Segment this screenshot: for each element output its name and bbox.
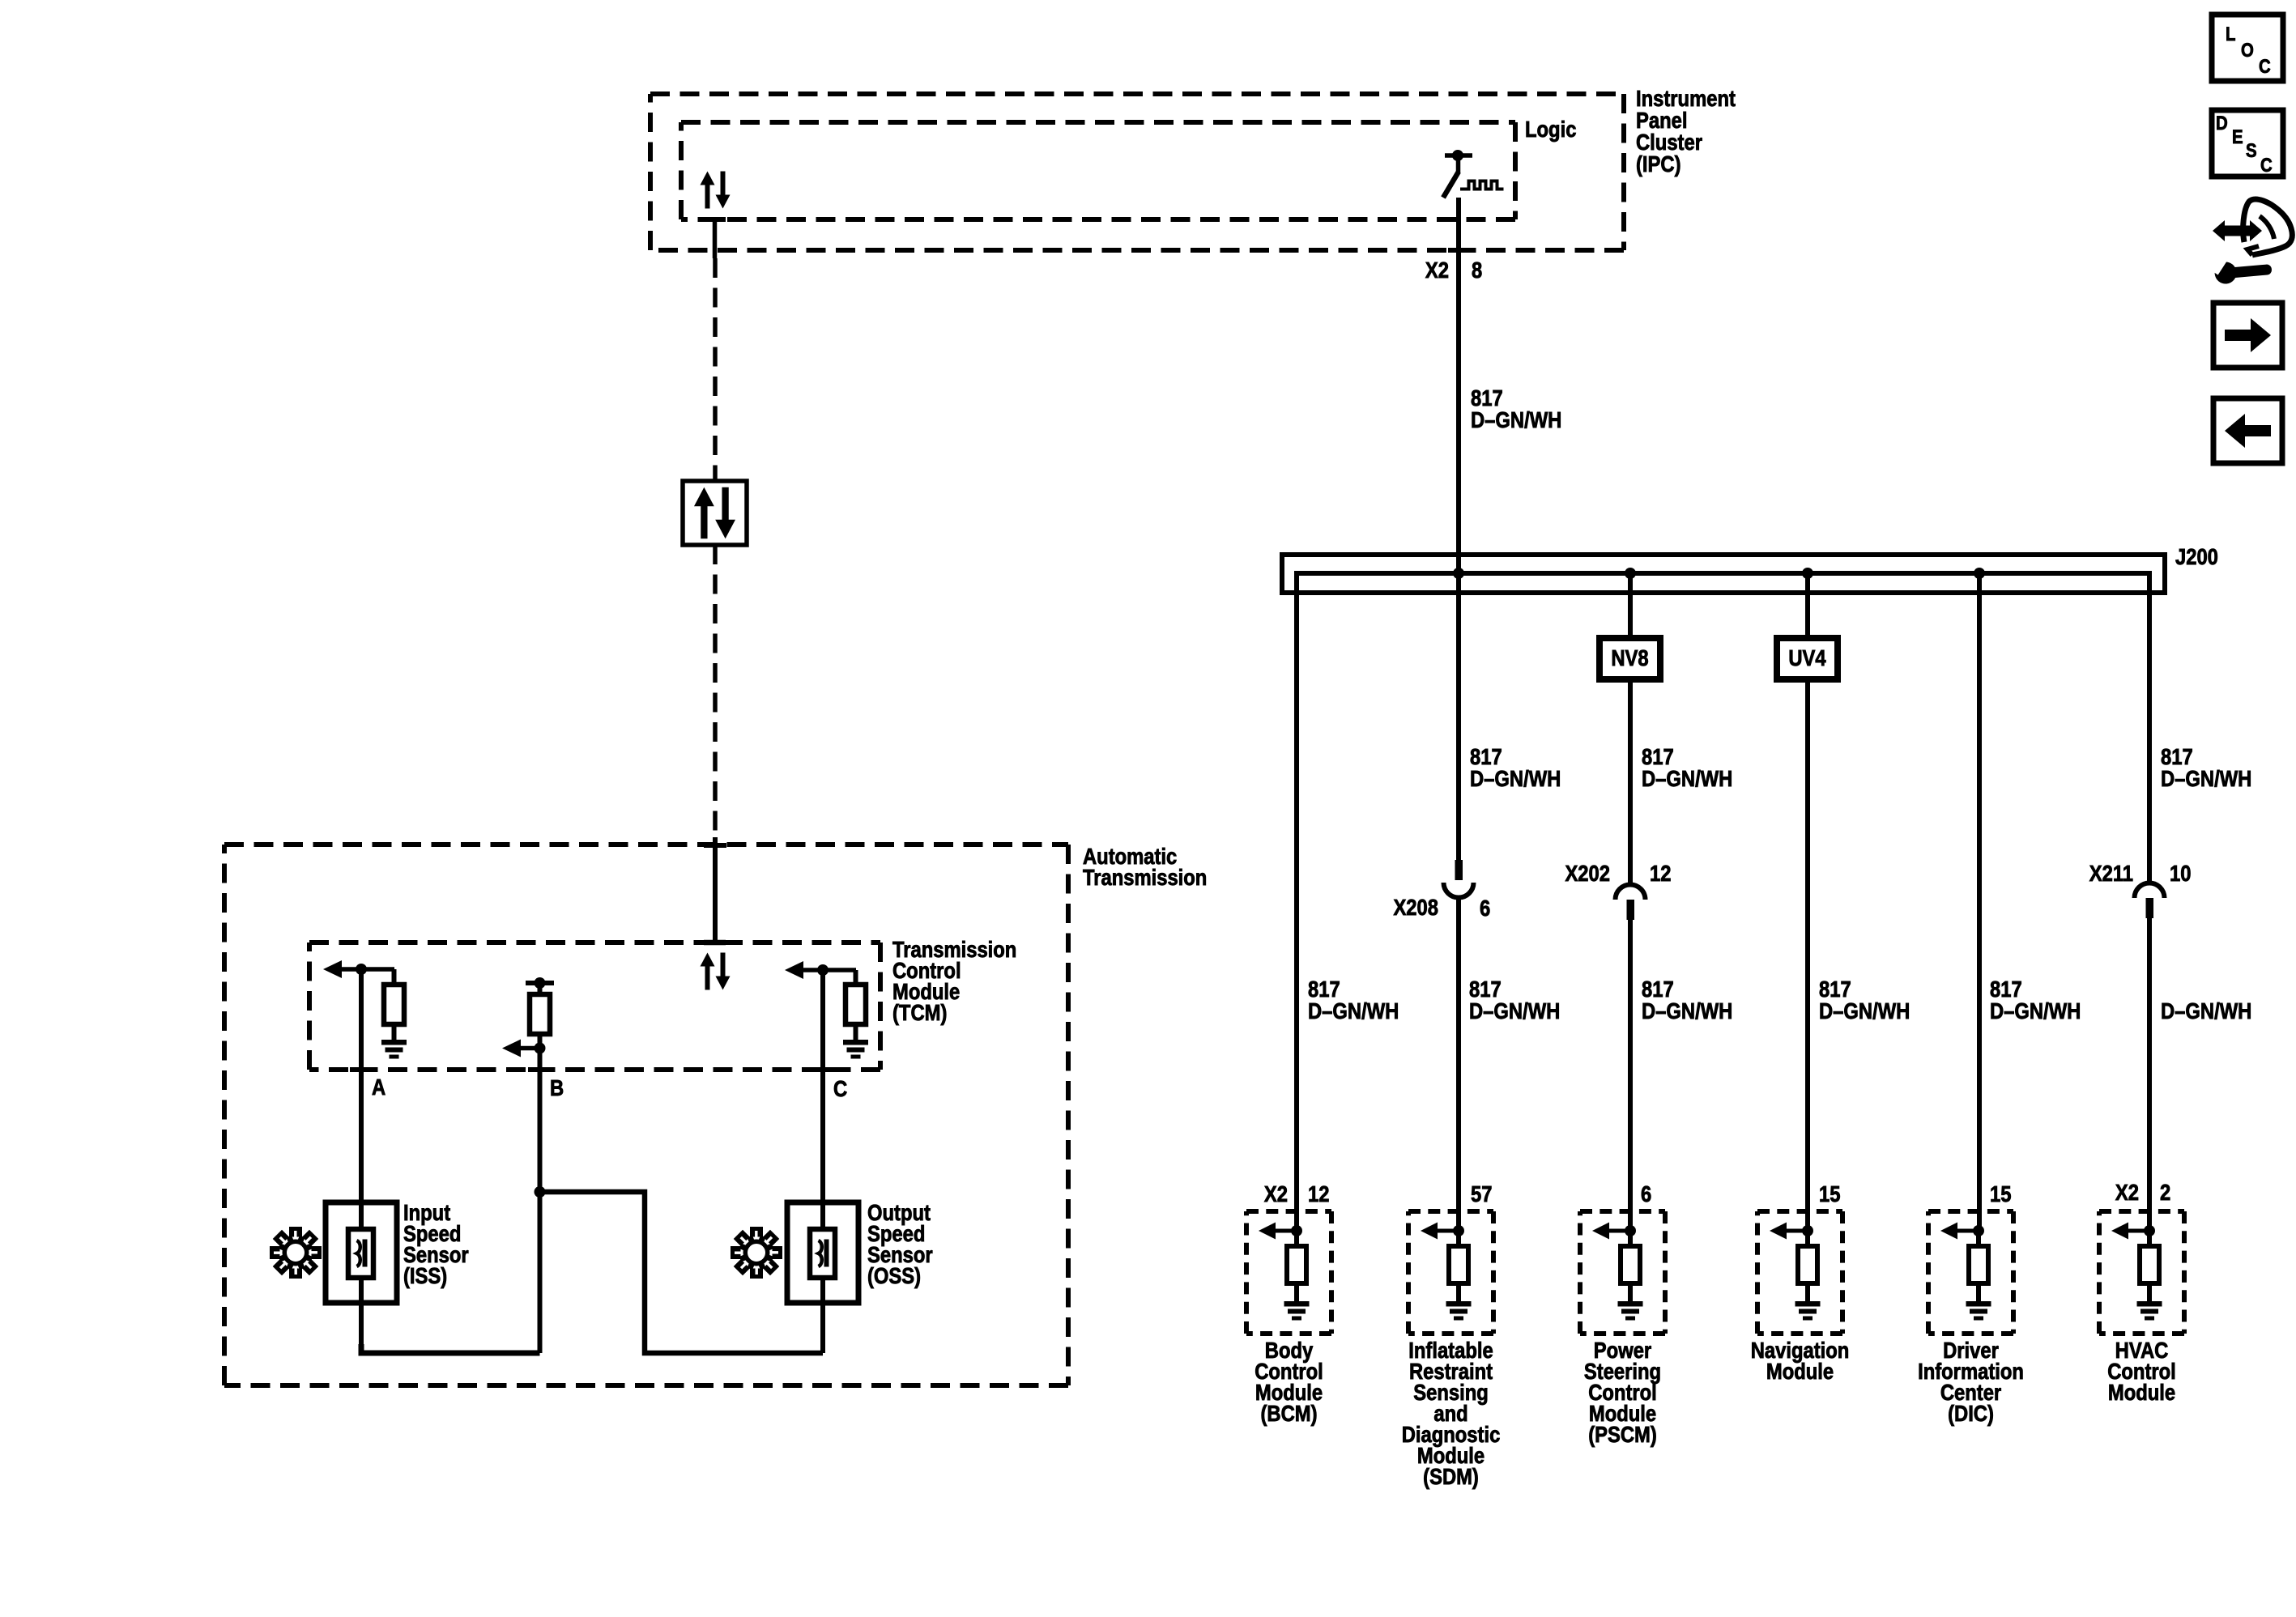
Automatic Transmission outer dashed box (224, 845, 1068, 1385)
sidebar LOC icon box (2212, 15, 2283, 81)
crossing dash at IPC box bottom for switch wire (1448, 248, 1470, 253)
wire column 5 to DIC (1977, 573, 1982, 1231)
svg-text:D: D (2216, 112, 2228, 134)
svg-text:(OSS): (OSS) (867, 1262, 921, 1288)
connector X211 socket arc (2135, 883, 2165, 899)
svg-text:C: C (833, 1075, 847, 1101)
node dot bus at column 2 (1453, 568, 1464, 579)
svg-text:15: 15 (1819, 1181, 1840, 1206)
crossing dash at transmission box top (704, 843, 726, 848)
wire column 3 upper half (1628, 573, 1633, 884)
svg-text:D–GN/WH: D–GN/WH (2161, 998, 2251, 1023)
wire column 3 lower half (1628, 919, 1633, 1231)
svg-text:Transmission: Transmission (1083, 864, 1207, 890)
ground at terminal C (843, 1040, 868, 1059)
wire B from TCM down (538, 1049, 543, 1354)
wire C from TCM through OSS (820, 970, 825, 1353)
gear at ISS (270, 1227, 322, 1279)
crossing dash at logic box bottom for lamp wire (704, 217, 726, 222)
crossing dash TCM bottom at wire B (528, 1067, 551, 1072)
svg-text:X202: X202 (1565, 860, 1610, 886)
svg-text:2: 2 (2160, 1179, 2170, 1205)
svg-text:D–GN/WH: D–GN/WH (2161, 765, 2251, 791)
node dot terminal C (817, 964, 829, 976)
svg-text:X2: X2 (1425, 257, 1449, 283)
svg-text:Module: Module (2108, 1379, 2175, 1405)
svg-text:Logic: Logic (1525, 116, 1576, 142)
svg-text:(DIC): (DIC) (1948, 1400, 1994, 1426)
connector X202 socket arc (1616, 885, 1646, 900)
sidebar back arrow icon box (2213, 398, 2282, 463)
SDM internal arrow resistor ground (1421, 1223, 1472, 1321)
crossing dash TCM bottom at wire C (811, 1067, 834, 1072)
wire column 4 to Navigation (1805, 573, 1810, 1231)
module dashed box column 4 Navigation (1757, 1211, 1842, 1334)
node dot bus at column 4 (1802, 568, 1813, 579)
svg-text:X208: X208 (1393, 894, 1438, 920)
connector X211 pin (2146, 898, 2154, 918)
wire column 6 upper half (2147, 573, 2152, 883)
wire column 1 to BCM (1294, 573, 1299, 1231)
svg-text:O: O (2241, 39, 2254, 61)
wire column 2 lower half (1456, 897, 1461, 1231)
svg-text:(IPC): (IPC) (1636, 151, 1680, 177)
sidebar DESC icon box (2212, 110, 2283, 177)
svg-text:D–GN/WH: D–GN/WH (1469, 998, 1560, 1023)
TCM terminal B resistor with top tee (526, 981, 554, 985)
svg-text:10: 10 (2170, 860, 2191, 886)
node dot bus at column 3 (1625, 568, 1636, 579)
Instrument Panel Cluster (IPC) outer dashed box (650, 94, 1624, 250)
svg-text:D–GN/WH: D–GN/WH (1990, 998, 2081, 1023)
dashed class-2 data wire from IPC lamp down (713, 258, 718, 481)
Transmission Control Module (TCM) dashed box (309, 943, 880, 1070)
svg-text:(PSCM): (PSCM) (1588, 1421, 1657, 1447)
TCM terminal B: output arrow (502, 1040, 521, 1057)
wire column 2 to SDM upper half (1456, 573, 1461, 862)
option box NV8 (1600, 638, 1660, 679)
module dashed box column 5 DIC (1928, 1211, 2013, 1334)
junction dot on wire B (535, 1186, 546, 1198)
Input Speed Sensor (ISS) box (326, 1202, 397, 1303)
svg-text:C: C (2259, 55, 2271, 77)
svg-text:C: C (2260, 154, 2273, 176)
Logic inner dashed box of IPC (681, 122, 1515, 219)
svg-text:E: E (2232, 126, 2243, 147)
TCM terminal C: output arrow (785, 961, 803, 979)
svg-text:(BCM): (BCM) (1260, 1400, 1317, 1426)
HVAC internal arrow resistor ground (2111, 1223, 2162, 1321)
option box UV4 (1777, 638, 1838, 679)
wire A from TCM to ISS and bottom (359, 969, 364, 1353)
node stub below logic lamp (713, 217, 718, 258)
svg-text:6: 6 (1480, 895, 1490, 921)
svg-text:D–GN/WH: D–GN/WH (1470, 765, 1561, 791)
svg-text:15: 15 (1990, 1181, 2011, 1206)
svg-text:(SDM): (SDM) (1423, 1463, 1479, 1489)
svg-text:8: 8 (1472, 257, 1482, 283)
svg-text:D–GN/WH: D–GN/WH (1819, 998, 1910, 1023)
connector X202 pin (1627, 900, 1635, 920)
module dashed box column 6 HVAC (2099, 1211, 2184, 1334)
OSS sensor element (810, 1229, 835, 1278)
connector X208 socket arc (1444, 883, 1474, 898)
Output Speed Sensor (OSS) box (787, 1202, 858, 1303)
module dashed box column 3 PSCM (1580, 1211, 1665, 1334)
sidebar next arrow icon box (2213, 303, 2282, 368)
node dot terminal A (356, 964, 367, 975)
wire column 6 lower half (2147, 917, 2152, 1231)
svg-text:6: 6 (1641, 1181, 1651, 1206)
terminal tee bar at TCM top (704, 940, 726, 946)
svg-text:(TCM): (TCM) (892, 999, 947, 1025)
splice pack J200 outer box (1282, 555, 2165, 593)
wrench (2211, 254, 2273, 285)
svg-text:J200: J200 (2175, 543, 2218, 569)
solid wire entering TCM (713, 837, 718, 943)
TCM terminal A: output arrow (323, 960, 342, 978)
lamp arrows symbol in IPC logic (701, 172, 731, 209)
DIC internal arrow resistor ground (1940, 1223, 1991, 1321)
svg-text:12: 12 (1308, 1181, 1329, 1206)
crossing dash TCM bottom at wire A (350, 1067, 373, 1072)
sidebar diagnostic hand and wrench icon (2213, 199, 2292, 255)
svg-text:B: B (550, 1074, 564, 1100)
svg-text:D–GN/WH: D–GN/WH (1471, 406, 1561, 432)
ISS sensor element (348, 1229, 373, 1278)
PWM switch symbol in IPC logic (1443, 150, 1504, 198)
connector X208 pin (1455, 860, 1463, 880)
node dot bus at column 5 (1974, 568, 1985, 579)
svg-text:L: L (2226, 23, 2235, 45)
svg-text:S: S (2246, 139, 2257, 161)
module dashed box column 1 BCM (1246, 1211, 1331, 1334)
gear at OSS (731, 1227, 782, 1279)
BCM internal arrow resistor ground (1259, 1223, 1310, 1321)
svg-text:D–GN/WH: D–GN/WH (1308, 998, 1399, 1023)
wire from IPC switch down to splice pack (circuit 817) (1456, 198, 1461, 862)
ground at terminal A (381, 1040, 407, 1059)
svg-text:57: 57 (1471, 1181, 1492, 1206)
svg-text:D–GN/WH: D–GN/WH (1642, 765, 1732, 791)
svg-text:UV4: UV4 (1788, 645, 1826, 670)
svg-text:X211: X211 (2089, 860, 2133, 886)
splice pack J200 inner bus bar (1297, 573, 2149, 599)
lamp box symbol on dashed wire (683, 481, 747, 545)
svg-text:12: 12 (1650, 860, 1671, 886)
svg-text:A: A (372, 1074, 386, 1100)
module dashed box column 2 SDM (1408, 1211, 1493, 1334)
dashed wire continues to transmission (713, 545, 718, 837)
bottom wire joining A to B (361, 1344, 540, 1353)
svg-text:NV8: NV8 (1611, 645, 1648, 670)
svg-text:X2: X2 (2115, 1179, 2139, 1205)
svg-text:(ISS): (ISS) (403, 1262, 447, 1288)
svg-text:D–GN/WH: D–GN/WH (1642, 998, 1732, 1023)
svg-text:X2: X2 (1264, 1181, 1288, 1206)
PSCM internal arrow resistor ground (1592, 1223, 1643, 1321)
lamp arrows symbol inside TCM (701, 953, 731, 990)
Navigation internal arrow resistor ground (1770, 1223, 1821, 1321)
svg-text:Module: Module (1766, 1358, 1834, 1384)
pull-up resistor at terminal A (392, 969, 397, 985)
node dot terminal B (535, 1043, 546, 1054)
branch wire from B junction to wire C bottom (540, 1192, 824, 1353)
pull-up resistor at terminal C (854, 970, 858, 985)
